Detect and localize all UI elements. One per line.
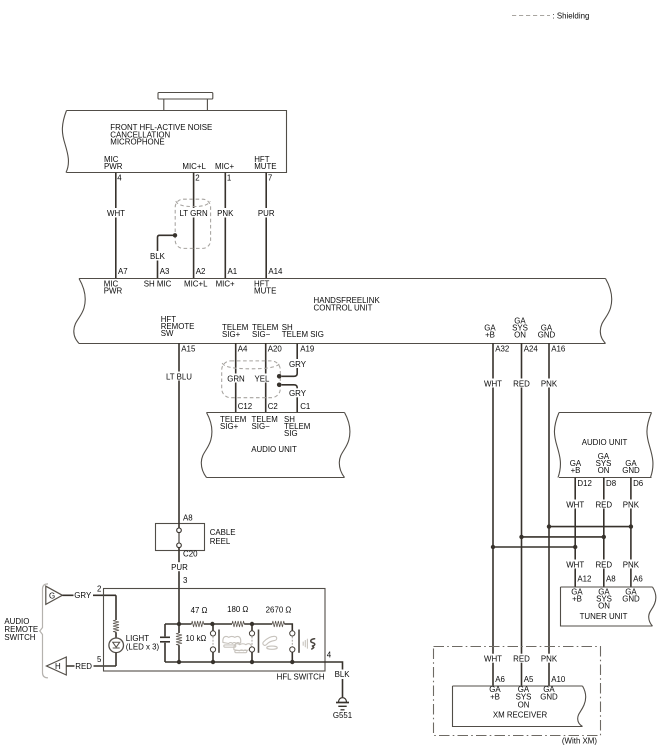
- svg-text:ON: ON: [598, 601, 610, 610]
- icon call end handset 1: [223, 636, 241, 647]
- switch 2 bar: [258, 630, 260, 653]
- svg-text:WHT: WHT: [566, 500, 584, 509]
- svg-text:A15: A15: [181, 344, 196, 353]
- svg-text:4: 4: [327, 651, 332, 660]
- svg-text:A32: A32: [495, 344, 509, 353]
- svg-text:AUDIO UNIT: AUDIO UNIT: [582, 438, 628, 447]
- svg-text:RED: RED: [513, 379, 530, 388]
- switch 3 dashed actuator line: [291, 637, 293, 647]
- junction dot RED right: [602, 535, 606, 539]
- switch 1 contact top: [210, 624, 215, 636]
- cable reel contact wire upper: [178, 523, 180, 528]
- wire WHT mic pin4 to A7: [115, 173, 117, 279]
- svg-text:A6: A6: [495, 675, 505, 684]
- svg-text:A24: A24: [524, 344, 539, 353]
- svg-text:C2: C2: [268, 402, 278, 411]
- junction dot bottom sw1: [211, 660, 215, 664]
- svg-text:GRN: GRN: [227, 374, 245, 383]
- svg-text:C20: C20: [183, 550, 198, 559]
- unit box: AUDIO UNIT right: [554, 413, 653, 478]
- wire jog RED junction: [522, 536, 604, 538]
- shield around GRN and YEL wires: [222, 361, 281, 398]
- wire resistor to LED: [115, 632, 117, 638]
- microphone stand symbol: [158, 93, 213, 111]
- wire PUR mic pin7 to A14: [265, 173, 267, 279]
- wire PNK mic pin1 to A1: [224, 173, 226, 279]
- svg-text:A6: A6: [633, 574, 643, 583]
- xm pin name GA +B: [489, 685, 501, 701]
- switch 2 contact bottom: [249, 647, 254, 662]
- shield around LT GRN wire: [175, 199, 210, 248]
- wire label PUR: [170, 562, 190, 572]
- svg-text:WHT: WHT: [107, 209, 125, 218]
- svg-text:+B: +B: [485, 331, 495, 340]
- unit name HANDSFREELINK CONTROL UNIT: [314, 296, 381, 312]
- svg-text:WHT: WHT: [484, 379, 502, 388]
- pin number 2: [96, 584, 102, 593]
- wire label BLK: [148, 251, 167, 261]
- svg-text:PNK: PNK: [623, 560, 640, 569]
- svg-text:A12: A12: [577, 574, 591, 583]
- wire label PUR: [257, 208, 277, 218]
- capacitor branch: [160, 624, 170, 662]
- svg-text:SIG−: SIG−: [252, 330, 271, 339]
- svg-text:GRY: GRY: [289, 360, 307, 369]
- hfl pin name TELEM SIG-: [252, 323, 278, 339]
- junction dot PNK left: [547, 524, 551, 528]
- mic pin name MIC PWR: [104, 155, 123, 171]
- cable reel contact circle lower: [177, 543, 182, 548]
- wire label RED upper: [512, 379, 532, 389]
- hfl pin name GA +B: [484, 324, 496, 340]
- wire jog WHT junction: [493, 546, 575, 548]
- svg-text:A7: A7: [118, 267, 128, 276]
- junction dot WHT right: [573, 545, 577, 549]
- unit box: HANDSFREELINK CONTROL UNIT: [74, 279, 612, 344]
- svg-text:BLK: BLK: [335, 670, 351, 679]
- cable reel contact circle upper: [177, 528, 182, 533]
- svg-text:MUTE: MUTE: [254, 162, 276, 171]
- svg-text:D12: D12: [577, 479, 591, 488]
- svg-text:WHT: WHT: [566, 560, 584, 569]
- hfl pin name HFT REMOTE SW: [161, 315, 195, 338]
- pin number 5: [96, 655, 102, 664]
- svg-text:PWR: PWR: [104, 162, 123, 171]
- svg-text:GND: GND: [622, 594, 640, 603]
- wire label YEL: [253, 374, 272, 384]
- svg-text:180 Ω: 180 Ω: [227, 605, 248, 614]
- unit box: FRONT HFL-ACTIVE NOISE CANCELLATION MICROPHONE: [62, 111, 286, 173]
- wire jog PNK junction: [549, 526, 631, 528]
- svg-text:ON: ON: [514, 331, 526, 340]
- svg-text:C12: C12: [238, 402, 252, 411]
- audio right pin name GA GND: [622, 459, 640, 475]
- wire LT BLU A15 to cable reel A8: [178, 343, 180, 524]
- svg-text:A8: A8: [183, 514, 193, 523]
- dash-dot option border With XM: [434, 647, 601, 736]
- junction dot bottom sw2: [250, 660, 254, 664]
- xm pin name GA SYS ON: [516, 685, 532, 709]
- junction dot RED left: [519, 535, 523, 539]
- switch 2 dashed actuator line: [251, 637, 253, 647]
- svg-text:G551: G551: [333, 711, 352, 720]
- svg-text:PNK: PNK: [623, 500, 640, 509]
- svg-text:5: 5: [97, 655, 102, 664]
- wire GRY A19 to shield: [282, 344, 298, 377]
- wire RED A24 down to XM A5: [521, 343, 523, 686]
- svg-text:(LED x 3): (LED x 3): [126, 643, 160, 652]
- wire PUR C20 to HFL switch pin3: [178, 551, 180, 589]
- svg-text:1: 1: [227, 173, 231, 182]
- top rail wire seg2: [204, 623, 232, 625]
- connector triangle H: [47, 657, 67, 675]
- svg-text:TELEM SIG: TELEM SIG: [282, 330, 324, 339]
- wire BLK to ground: [342, 681, 344, 697]
- switch 3 contact bottom: [290, 647, 295, 662]
- svg-text:LT BLU: LT BLU: [166, 373, 192, 382]
- svg-text:PNK: PNK: [217, 209, 234, 218]
- wire label PNK tuner: [621, 560, 641, 570]
- svg-text:GND: GND: [622, 466, 640, 475]
- cable reel contact wire lower: [178, 548, 180, 551]
- wire label PNK: [216, 208, 236, 218]
- svg-text:G: G: [49, 591, 55, 600]
- svg-text:GRY: GRY: [289, 389, 307, 398]
- svg-text:A16: A16: [551, 344, 566, 353]
- wire YEL A20 to C2: [265, 343, 267, 413]
- wire GRN A4 to C12: [235, 343, 237, 413]
- svg-text:ON: ON: [598, 466, 610, 475]
- resistor 180 ohm: [232, 621, 244, 627]
- resistor 2670 ohm: [272, 621, 284, 627]
- wire label PNK xm: [539, 654, 559, 664]
- wire label LT GRN: [178, 208, 209, 218]
- junction dot node 180-2670: [250, 622, 254, 626]
- svg-text:: Shielding: : Shielding: [553, 12, 590, 21]
- wire pin3 to resistor network: [178, 589, 180, 625]
- wire LT GRN mic pin2 to A2: [193, 173, 195, 279]
- svg-text:CABLE: CABLE: [210, 528, 236, 537]
- svg-text:+B: +B: [490, 693, 500, 702]
- switch 1 bar: [218, 630, 220, 653]
- svg-text:SIG+: SIG+: [220, 422, 239, 431]
- wire label GRN: [226, 374, 246, 384]
- wire label RED xm: [512, 654, 532, 664]
- top rail wire seg3: [244, 623, 272, 625]
- svg-text:2670 Ω: 2670 Ω: [266, 606, 292, 615]
- svg-text:SW: SW: [161, 329, 174, 338]
- svg-text:MIC+L: MIC+L: [182, 162, 206, 171]
- wire PNK D6 to tuner A6: [630, 478, 632, 587]
- switch 1 dashed actuator line: [212, 637, 214, 647]
- junction dot pin3 node: [177, 622, 181, 626]
- svg-text:C1: C1: [300, 402, 310, 411]
- junction dot bottom 10k: [177, 660, 181, 664]
- wire label WHT audio right: [565, 500, 585, 510]
- legend shielding dashed sample: [512, 15, 550, 17]
- icon pick up handset: [263, 636, 278, 649]
- svg-text:A3: A3: [160, 267, 170, 276]
- svg-text:YEL: YEL: [255, 374, 271, 383]
- svg-text:+B: +B: [572, 594, 582, 603]
- svg-text:AUDIO UNIT: AUDIO UNIT: [251, 445, 297, 454]
- junction dot node 47-180: [210, 622, 214, 626]
- wire label WHT upper: [483, 379, 503, 389]
- svg-text:7: 7: [268, 173, 272, 182]
- audio right pin name GA SYS ON: [596, 452, 612, 475]
- hfl pin name GA GND: [538, 324, 556, 340]
- svg-text:A20: A20: [268, 344, 283, 353]
- wire label LT BLU: [164, 372, 194, 382]
- wire label PNK upper: [539, 379, 559, 389]
- svg-text:D6: D6: [633, 479, 644, 488]
- switch 2 contact top: [249, 624, 254, 636]
- svg-text:RED: RED: [595, 560, 612, 569]
- wire PNK A16 down to XM A10: [548, 343, 550, 686]
- svg-text:A19: A19: [300, 344, 315, 353]
- audio pin name TELEM SIG-: [252, 415, 278, 431]
- wire label BLK ground: [334, 670, 353, 680]
- svg-text:ON: ON: [518, 700, 530, 709]
- svg-text:PUR: PUR: [258, 209, 275, 218]
- svg-text:MICROPHONE: MICROPHONE: [110, 137, 164, 146]
- svg-text:SIG: SIG: [284, 429, 298, 438]
- icon call end handset 2: [234, 644, 252, 653]
- mic pin name HFT MUTE: [254, 155, 276, 171]
- wire RED triangle H to HFL switch pin5: [66, 665, 116, 667]
- svg-text:GRY: GRY: [74, 591, 92, 600]
- wire label RED audio right: [594, 500, 614, 510]
- svg-text:+B: +B: [571, 466, 581, 475]
- wire label PNK audio right: [621, 500, 641, 510]
- resistor 47 ohm: [192, 621, 204, 627]
- unit box: HFL SWITCH: [104, 589, 326, 672]
- svg-text:A4: A4: [238, 344, 248, 353]
- tuner pin name GA SYS ON: [596, 587, 612, 610]
- LED branch wire lower: [115, 653, 117, 667]
- svg-text:2: 2: [195, 173, 199, 182]
- resistor 10k vertical: [176, 624, 182, 662]
- wire label WHT tuner: [565, 560, 585, 570]
- svg-text:2: 2: [97, 584, 101, 593]
- svg-text:WHT: WHT: [484, 655, 502, 664]
- wire label GRY switch: [74, 590, 94, 600]
- svg-text:MUTE: MUTE: [254, 287, 276, 296]
- junction dot shield lower: [277, 383, 282, 388]
- wire WHT D12 to tuner A12: [574, 478, 576, 587]
- mic unit name text: [110, 123, 212, 146]
- wire label RED switch: [75, 661, 94, 671]
- svg-text:PWR: PWR: [104, 287, 123, 296]
- svg-text:TUNER UNIT: TUNER UNIT: [580, 612, 628, 621]
- svg-text:A10: A10: [551, 675, 566, 684]
- switch 3 bar: [298, 630, 300, 653]
- svg-text:MIC+: MIC+: [216, 280, 235, 289]
- audio right pin name GA +B: [570, 459, 582, 475]
- wire label GRY lower: [288, 388, 307, 398]
- audio remote switch bracket: [40, 584, 48, 678]
- icon talk squiggle: [311, 639, 315, 649]
- xm pin name GA GND: [540, 685, 558, 701]
- junction dot bottom sw3: [290, 660, 294, 664]
- icon talk speaker waves: [303, 639, 307, 648]
- wire label WHT: [106, 208, 126, 218]
- wire label WHT xm: [483, 654, 503, 664]
- svg-text:D8: D8: [606, 479, 617, 488]
- svg-text:BLK: BLK: [150, 252, 166, 261]
- tuner pin name GA +B: [571, 587, 583, 603]
- junction dot PNK right: [629, 524, 633, 528]
- audio pin name TELEM SIG+: [220, 415, 246, 431]
- svg-text:RED: RED: [513, 655, 530, 664]
- svg-text:XM RECEIVER: XM RECEIVER: [493, 710, 548, 719]
- label LIGHT LED x 3: [126, 634, 160, 652]
- svg-text:A1: A1: [228, 267, 238, 276]
- svg-text:A14: A14: [268, 267, 283, 276]
- svg-text:REEL: REEL: [210, 537, 231, 546]
- wire label RED tuner: [594, 560, 614, 570]
- svg-text:SH MIC: SH MIC: [144, 280, 172, 289]
- svg-text:H: H: [55, 662, 61, 671]
- svg-text:A8: A8: [606, 574, 616, 583]
- resistor LED series: [113, 620, 119, 632]
- wire BLK shield drain to A3: [158, 235, 175, 278]
- unit box: AUDIO UNIT middle: [201, 413, 350, 478]
- hfl pin name MIC PWR: [104, 280, 123, 296]
- svg-text:HFL SWITCH: HFL SWITCH: [277, 672, 325, 681]
- LED branch wire upper: [115, 595, 117, 620]
- svg-text:LT GRN: LT GRN: [179, 209, 208, 218]
- connector triangle G: [46, 586, 63, 604]
- hfl pin name GA SYS ON: [512, 317, 528, 340]
- wire GRY shield to C1: [282, 385, 298, 413]
- switch 3 contact top: [290, 631, 295, 636]
- svg-text:47 Ω: 47 Ω: [191, 606, 208, 615]
- wire label GRY upper: [288, 359, 307, 369]
- audio pin name SH TELEM SIG: [284, 415, 310, 438]
- label AUDIO REMOTE SWITCH: [4, 617, 38, 642]
- unit name CABLE REEL: [210, 528, 236, 546]
- svg-text:10 kΩ: 10 kΩ: [186, 634, 207, 643]
- svg-text:A5: A5: [524, 675, 534, 684]
- switch 1 contact bottom: [210, 647, 215, 662]
- svg-text:RED: RED: [75, 662, 92, 671]
- LED lamp symbol: [109, 638, 124, 653]
- svg-text:A2: A2: [196, 267, 206, 276]
- tuner pin name GA GND: [622, 587, 640, 603]
- wire WHT A32 down to XM A6: [492, 343, 494, 686]
- top rail wire: [165, 623, 192, 625]
- unit box: TUNER UNIT: [561, 587, 656, 626]
- bottom rail wire to pin4: [165, 662, 343, 681]
- cable reel link wire: [178, 533, 180, 543]
- top rail corner to switch3: [284, 624, 292, 631]
- junction dot shield drain: [173, 233, 177, 237]
- hfl pin name TELEM SIG+: [222, 323, 248, 339]
- svg-text:3: 3: [183, 576, 188, 585]
- svg-text:MIC+: MIC+: [215, 162, 234, 171]
- svg-text:(With XM): (With XM): [562, 737, 597, 746]
- svg-text:RED: RED: [595, 500, 612, 509]
- wire RED D8 to tuner A8: [603, 478, 605, 587]
- svg-text:GND: GND: [538, 331, 556, 340]
- svg-text:SIG+: SIG+: [222, 330, 241, 339]
- wire GRY triangle G to HFL switch pin2: [62, 594, 116, 596]
- ground symbol G551: [336, 698, 349, 710]
- hfl pin name HFT MUTE: [254, 280, 276, 296]
- svg-text:MIC+L: MIC+L: [184, 280, 208, 289]
- junction dot WHT left: [491, 545, 495, 549]
- svg-text:4: 4: [117, 173, 122, 182]
- svg-text:SWITCH: SWITCH: [4, 633, 35, 642]
- unit box: CABLE REEL: [156, 524, 205, 551]
- svg-text:SIG−: SIG−: [252, 422, 271, 431]
- unit box: XM RECEIVER: [453, 686, 586, 727]
- svg-text:CONTROL UNIT: CONTROL UNIT: [314, 303, 373, 312]
- svg-text:PNK: PNK: [541, 655, 558, 664]
- junction dot shield upper: [277, 374, 282, 379]
- svg-text:PNK: PNK: [541, 379, 558, 388]
- svg-text:PUR: PUR: [171, 563, 188, 572]
- hfl pin name SH TELEM SIG: [282, 323, 324, 339]
- svg-text:GND: GND: [540, 693, 558, 702]
